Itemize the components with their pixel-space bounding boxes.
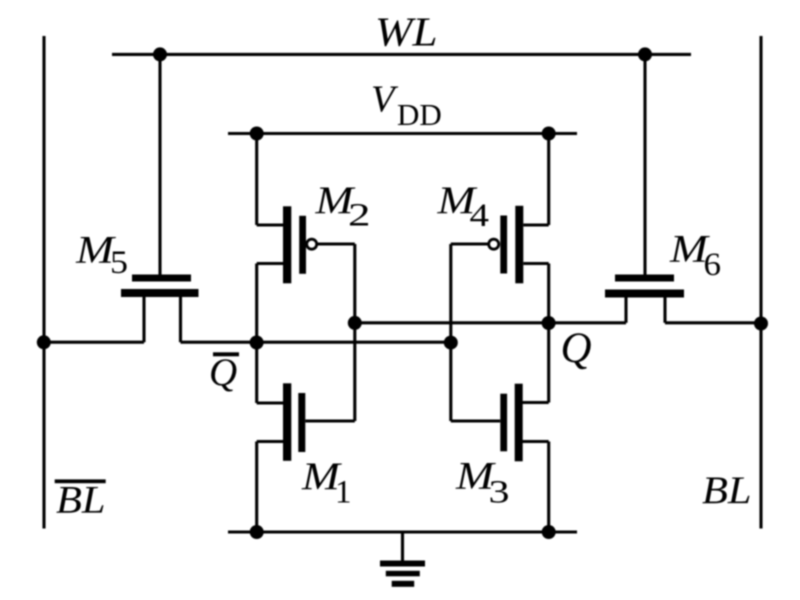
- svg-text:WL: WL: [375, 9, 438, 55]
- svg-text:Q: Q: [209, 351, 237, 394]
- svg-text:BL: BL: [702, 469, 752, 512]
- svg-text:V: V: [371, 79, 399, 121]
- svg-text:2: 2: [348, 198, 371, 234]
- svg-text:1: 1: [335, 475, 352, 511]
- svg-text:BL: BL: [56, 479, 106, 522]
- svg-text:4: 4: [470, 198, 490, 234]
- svg-text:Q: Q: [561, 325, 592, 372]
- svg-text:6: 6: [704, 247, 722, 283]
- svg-text:5: 5: [110, 245, 128, 281]
- svg-text:3: 3: [489, 475, 510, 511]
- svg-text:DD: DD: [397, 97, 442, 132]
